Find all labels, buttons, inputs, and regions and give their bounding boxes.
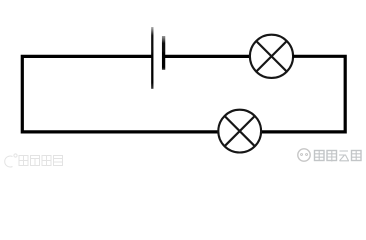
lamp L2 cross xyxy=(225,116,255,146)
battery right plate (short, negative) xyxy=(162,36,165,70)
lamp L1 cross xyxy=(256,41,286,71)
wire from battery to top lamp xyxy=(164,55,251,58)
battery left plate (long, positive) xyxy=(151,27,153,89)
lamp L1 (top) circle xyxy=(250,35,293,78)
lamp L2 (bottom) circle xyxy=(218,110,261,153)
wire right loop (top-right segment, right side, bottom-right segment) xyxy=(261,56,345,132)
wire left loop (top-left segment, left side, bottom-left segment) xyxy=(22,56,218,131)
watermark bottom-right (logo + gray text) xyxy=(298,149,310,161)
watermark bottom-left (faint outline logo + text) xyxy=(5,154,63,167)
